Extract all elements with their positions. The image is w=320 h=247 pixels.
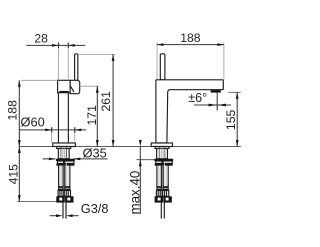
side view: dim 188 line and arrows	[157, 44, 224, 46]
hose collars	[58, 190, 64, 196]
dim 188 left line and arrows	[18, 80, 20, 146]
front view: base escutcheon	[53, 143, 76, 147]
svg-text:188: 188	[180, 31, 201, 45]
dim G3/8 line and arrows	[50, 215, 57, 217]
front view: aerator dark bar	[59, 91, 68, 93]
svg-text:±6°: ±6°	[188, 91, 207, 105]
dim +-6 centre tick	[216, 92, 218, 110]
dim 28 extension lines	[58, 43, 60, 80]
svg-text:155: 155	[224, 110, 238, 131]
under-counter assembly side view	[154, 147, 173, 219]
dim 155 line and arrows	[236, 92, 238, 146]
dim 415 bottom extension	[17, 201, 58, 203]
dim 188 left extension	[21, 79, 58, 81]
svg-text:188: 188	[6, 100, 20, 121]
front view: cartridge block	[70, 80, 80, 93]
front view: lever base diagonal	[70, 86, 74, 92]
dim max.40 line and arrows	[139, 147, 141, 215]
dim 261 line and arrows	[112, 54, 114, 146]
svg-text:261: 261	[99, 91, 113, 112]
counter/worktop line	[19, 146, 240, 148]
connection tube	[160, 203, 162, 219]
hose collars	[156, 190, 162, 196]
dim 171 line and arrows	[96, 86, 98, 146]
shank	[57, 147, 71, 149]
dim 28 ticks	[58, 43, 60, 49]
dim D35 line and arrows	[43, 158, 56, 160]
svg-text:Ø60: Ø60	[21, 115, 45, 130]
flange band	[154, 159, 173, 161]
front view: column left edge	[57, 93, 59, 143]
dim D60 extensions	[51, 128, 53, 143]
right hose	[64, 166, 66, 191]
flange band	[56, 159, 75, 161]
svg-text:171: 171	[85, 105, 99, 126]
washer body	[57, 161, 74, 163]
connector nuts G3/8	[56, 196, 65, 202]
washer bottom bar	[56, 163, 74, 165]
svg-text:Ø35: Ø35	[83, 145, 107, 160]
dim D60 line and arrows	[19, 129, 86, 131]
side view: dim 188 extensions	[156, 42, 158, 79]
connection tube	[62, 203, 64, 219]
side view: base escutcheon	[151, 143, 172, 147]
side view: lever handle	[160, 54, 165, 80]
dim max.40 underside line	[136, 159, 154, 161]
front view: spout head block	[58, 80, 71, 92]
right hose	[162, 166, 164, 191]
svg-text:max.40: max.40	[127, 171, 142, 215]
hose crimp bands	[157, 186, 162, 188]
centre threaded rod	[63, 166, 66, 196]
centre threaded rod	[161, 166, 164, 196]
front view: column right edge	[67, 93, 69, 143]
connector nuts G3/8	[155, 196, 164, 202]
left hose	[58, 166, 60, 191]
svg-text:28: 28	[34, 32, 48, 46]
washer body	[156, 161, 173, 163]
front view: lever handle	[75, 54, 78, 81]
svg-text:G3/8: G3/8	[81, 201, 109, 216]
left hose	[156, 166, 158, 191]
dim 28 line and arrows	[26, 44, 85, 46]
shank	[155, 147, 169, 149]
dim 155 extension	[228, 91, 240, 93]
side view: body profile	[156, 80, 223, 143]
dim 171 extension	[80, 85, 100, 87]
dim +-6 line and arrows	[194, 104, 231, 106]
side view: aerator block	[211, 90, 221, 93]
dim 415 line and arrows	[18, 147, 20, 202]
hose crimp bands	[58, 186, 63, 188]
svg-text:415: 415	[6, 164, 20, 185]
under-counter assembly front view	[56, 147, 75, 219]
washer bottom bar	[155, 163, 173, 165]
dim 261 extension	[78, 53, 115, 55]
